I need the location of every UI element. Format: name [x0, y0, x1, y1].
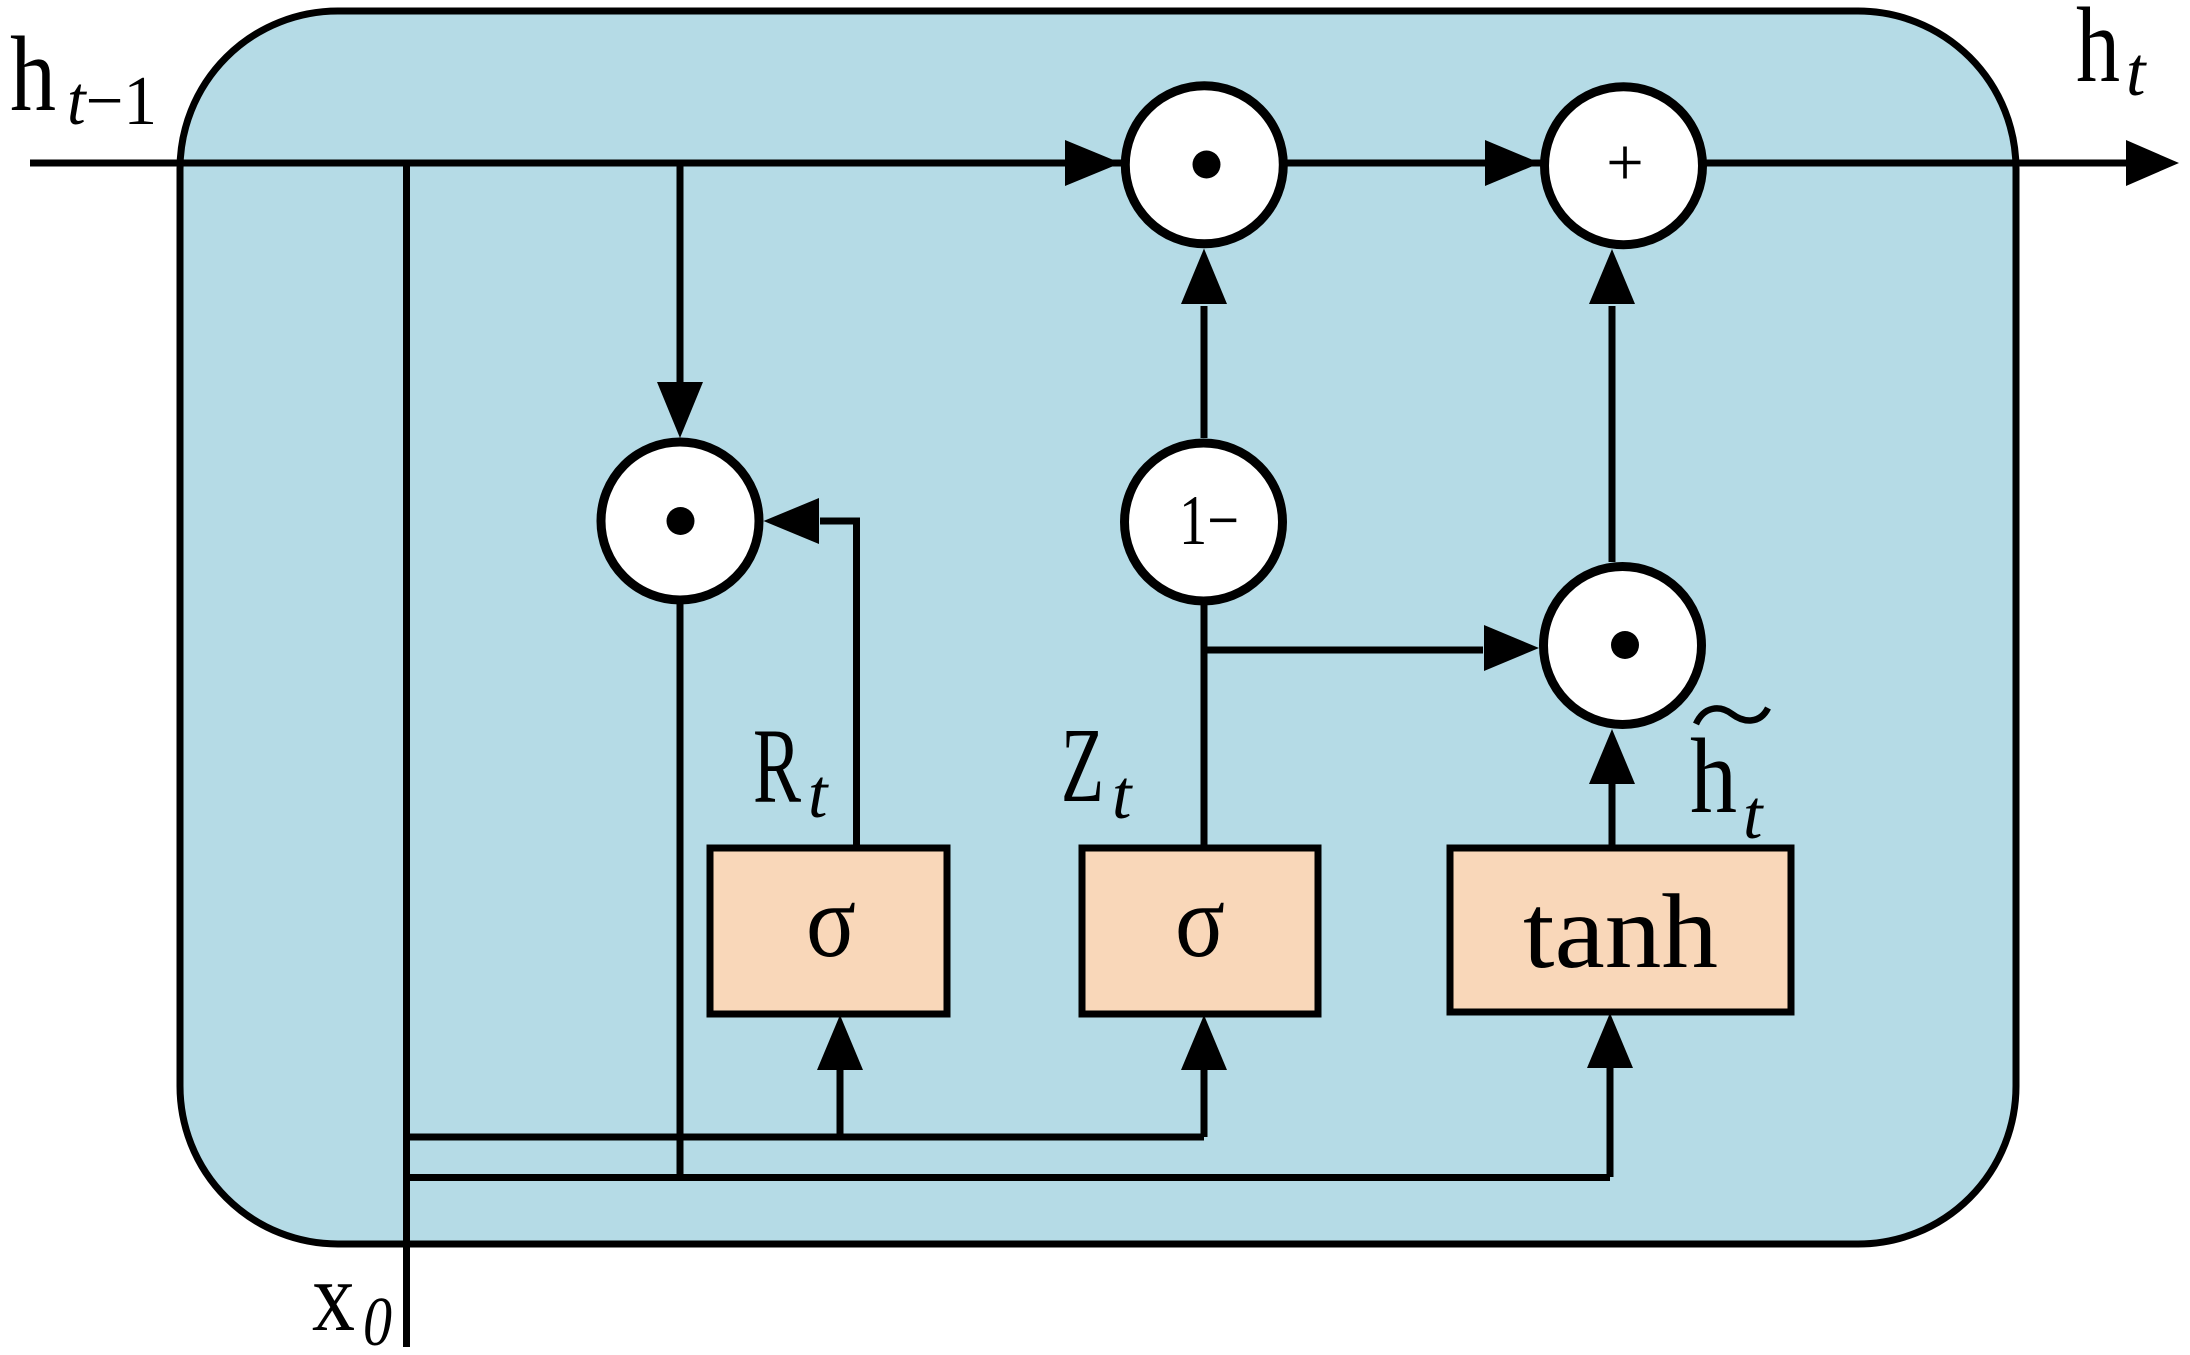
- svg-text:σ: σ: [1175, 864, 1225, 979]
- svg-text:x: x: [312, 1241, 355, 1352]
- svg-text:0: 0: [363, 1284, 392, 1355]
- svg-text:t: t: [2126, 34, 2147, 111]
- svg-text:R: R: [753, 708, 801, 826]
- svg-text:t−1: t−1: [67, 63, 157, 140]
- svg-text:Z: Z: [1061, 707, 1104, 825]
- svg-text:tanh: tanh: [1523, 873, 1718, 990]
- svg-text:1−: 1−: [1179, 482, 1239, 560]
- svg-text:t: t: [808, 756, 829, 833]
- svg-text:h: h: [1690, 718, 1737, 836]
- svg-text:t: t: [1112, 757, 1133, 834]
- svg-text:σ: σ: [806, 864, 856, 979]
- svg-text:t: t: [1743, 777, 1764, 854]
- svg-text:h: h: [10, 16, 56, 134]
- svg-text:h: h: [2076, 0, 2120, 105]
